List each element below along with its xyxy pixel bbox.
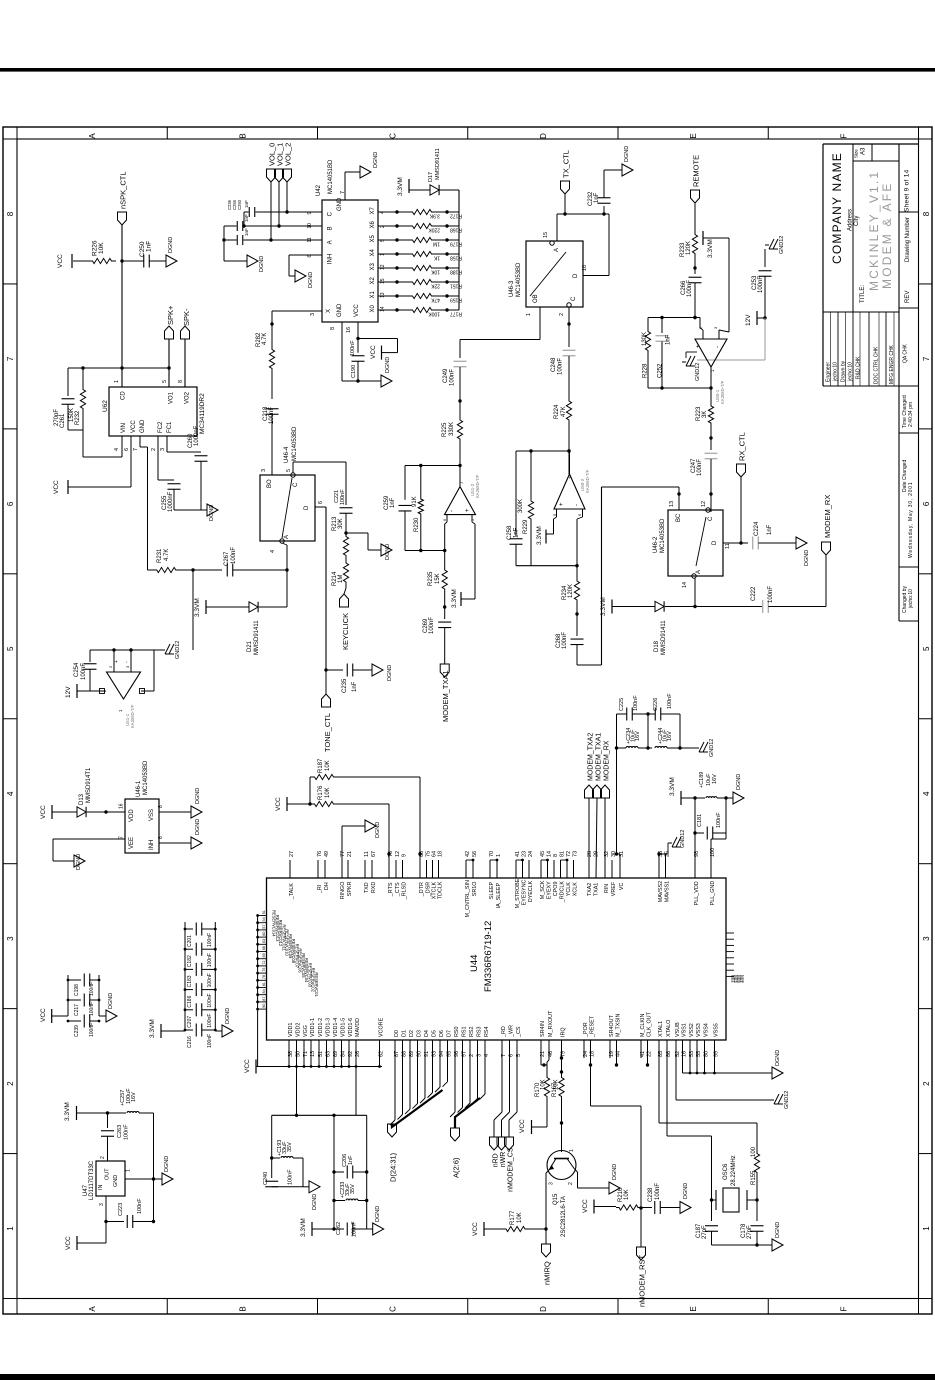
svg-text:FM336R6719-12: FM336R6719-12 xyxy=(483,921,494,992)
svg-text:R224: R224 xyxy=(554,404,560,419)
svg-text:VCC: VCC xyxy=(354,304,360,317)
title block signature columns xyxy=(837,312,839,386)
svg-text:U46-3: U46-3 xyxy=(509,280,515,297)
svg-text:F: F xyxy=(839,133,848,138)
svg-text:10K: 10K xyxy=(430,269,440,275)
svg-text:C224: C224 xyxy=(754,521,760,536)
svg-text:VCC: VCC xyxy=(275,797,282,811)
svg-text:OUT: OUT xyxy=(105,1168,111,1180)
svg-text:1nF: 1nF xyxy=(352,681,358,692)
svg-text:VCC: VCC xyxy=(519,1119,526,1133)
ground DGND at cap bank2 xyxy=(215,1030,222,1032)
capacitor C232 xyxy=(603,206,605,214)
op-amp U50-1 KA358D xyxy=(695,339,727,367)
svg-text:R151: R151 xyxy=(450,283,462,289)
U44 pin 27 _TALK xyxy=(289,860,291,878)
svg-text:MODEM_TXA1: MODEM_TXA1 xyxy=(596,733,603,781)
ground DGND at Q15 xyxy=(609,1182,620,1194)
power VCC at U44 VDD rail xyxy=(255,1060,257,1074)
svg-text:INH: INH xyxy=(149,840,155,850)
resistor R216 xyxy=(616,1205,641,1210)
resistor R232 xyxy=(80,368,85,430)
svg-text:45: 45 xyxy=(540,851,546,857)
title block drawing number cell xyxy=(899,307,919,309)
svg-text:120K: 120K xyxy=(686,241,692,255)
capacitor C247 xyxy=(705,452,718,454)
wire pin2 OC to C248 xyxy=(568,307,570,324)
svg-text:+C189: +C189 xyxy=(699,772,705,788)
crystal OSC6 28.224MHz xyxy=(715,1190,717,1210)
wire C261/R232 bottom rail to VIN xyxy=(68,429,83,431)
resistor R155 xyxy=(756,1123,758,1150)
ground GND12 at cap rails xyxy=(695,747,699,749)
power VCC at U62 xyxy=(67,480,69,494)
svg-text:28: 28 xyxy=(587,851,593,857)
resistor R282 xyxy=(269,346,274,372)
svg-text:U46-4: U46-4 xyxy=(284,446,290,463)
svg-text:_CS: _CS xyxy=(516,1026,522,1038)
svg-text:1nF: 1nF xyxy=(146,241,153,252)
svg-text:F: F xyxy=(839,1306,848,1311)
svg-text:300K: 300K xyxy=(518,499,524,513)
U44 pin 76 _RI xyxy=(317,860,319,878)
svg-text:GND: GND xyxy=(140,419,146,433)
ground GND12 at MAVSS xyxy=(658,854,660,878)
svg-text:R177: R177 xyxy=(450,311,462,317)
svg-text:D21: D21 xyxy=(247,640,253,652)
svg-text:KA358D-T/F: KA358D-T/F xyxy=(475,474,480,498)
svg-text:C240: C240 xyxy=(263,1172,269,1185)
svg-text:_CTS: _CTS xyxy=(395,882,401,897)
svg-text:Q15: Q15 xyxy=(553,1193,559,1205)
svg-text:M_RXOUT: M_RXOUT xyxy=(548,1010,554,1037)
svg-text:X7: X7 xyxy=(370,206,376,214)
capacitor C263 xyxy=(107,1113,109,1128)
U44 pin 18 TDCLK xyxy=(438,860,440,878)
svg-text:2SC2812L6-TA: 2SC2812L6-TA xyxy=(561,1196,567,1237)
svg-text:3.3VM: 3.3VM xyxy=(64,1102,71,1121)
ground GND12 at U50-1 xyxy=(686,351,697,353)
port SPK- xyxy=(181,326,190,339)
power 3.3VM near R233 xyxy=(702,231,704,245)
ground DGND at U46-1 VEE xyxy=(74,855,85,867)
svg-text:49: 49 xyxy=(324,851,330,857)
resistor R226 xyxy=(73,260,88,262)
svg-text:3.3VM: 3.3VM xyxy=(397,177,404,196)
U50-2 input stubs xyxy=(556,509,558,517)
svg-text:1: 1 xyxy=(114,380,120,383)
capacitor C206 xyxy=(334,1171,344,1173)
svg-text:RINGO: RINGO xyxy=(340,882,346,900)
svg-text:1nF: 1nF xyxy=(594,192,600,203)
svg-text:2:40:34 pm: 2:40:34 pm xyxy=(908,402,914,427)
svg-text:1nF: 1nF xyxy=(666,334,672,345)
capacitor C248 xyxy=(563,349,576,351)
svg-text:23: 23 xyxy=(521,851,527,857)
capacitor C222 xyxy=(695,606,762,608)
U44 pin 24 DYECLK xyxy=(528,860,530,878)
svg-text:jecho:10: jecho:10 xyxy=(908,589,914,609)
svg-text:3.3VM: 3.3VM xyxy=(451,589,458,608)
resistor R170 xyxy=(544,1074,549,1100)
svg-text:VSS2: VSS2 xyxy=(689,1023,695,1037)
resistor R234 xyxy=(576,566,578,579)
svg-text:_RLSD: _RLSD xyxy=(401,882,407,900)
svg-text:100nF: 100nF xyxy=(352,1221,358,1237)
svg-text:PLL_GND: PLL_GND xyxy=(710,881,716,906)
svg-text:100nF: 100nF xyxy=(124,1124,130,1140)
svg-text:1nF: 1nF xyxy=(348,1155,354,1165)
svg-text:X3: X3 xyxy=(370,262,376,270)
svg-text:4.7K: 4.7K xyxy=(164,549,170,561)
resistor R188 10K on X3 xyxy=(378,267,397,269)
svg-text:C267: C267 xyxy=(224,551,230,566)
ground DGND at U47 xyxy=(162,1173,173,1185)
U44 pin 41 M_STROBE xyxy=(515,860,517,878)
svg-text:GND12: GND12 xyxy=(175,641,181,659)
power VCC at U47 xyxy=(76,1236,78,1250)
capacitor C259 xyxy=(399,504,412,506)
svg-text:C261: C261 xyxy=(60,413,66,428)
svg-text:18: 18 xyxy=(437,851,443,857)
resistor R213 xyxy=(343,535,348,557)
svg-text:C: C xyxy=(328,211,334,216)
svg-text:VDD1-4: VDD1-4 xyxy=(333,1018,339,1037)
svg-text:C263: C263 xyxy=(117,1125,123,1138)
svg-text:16V: 16V xyxy=(131,1092,137,1102)
svg-text:jecho:10: jecho:10 xyxy=(848,362,854,382)
capacitor C201 xyxy=(185,928,193,930)
wires VOL ports to A B C lines xyxy=(270,182,272,240)
svg-text:X1: X1 xyxy=(370,290,376,298)
port nMIRQ xyxy=(545,1229,547,1244)
svg-text:A: A xyxy=(284,535,290,539)
svg-text:100: 100 xyxy=(751,1146,757,1157)
svg-text:B: B xyxy=(238,1306,247,1311)
svg-text:3.3VM: 3.3VM xyxy=(600,597,607,616)
svg-text:10K: 10K xyxy=(541,1079,547,1090)
svg-text:IA_SLEEP: IA_SLEEP xyxy=(496,883,502,909)
wire Q15 collector to DGND xyxy=(575,1169,578,1172)
svg-text:5: 5 xyxy=(6,646,15,651)
U44 left edge RESERV pins xyxy=(258,915,267,917)
capacitor C239 xyxy=(68,1020,81,1022)
ground DGND at U46-1 pin8 xyxy=(191,806,202,818)
svg-text:RIN: RIN xyxy=(604,884,610,893)
svg-text:15: 15 xyxy=(543,232,549,238)
svg-text:MODEM_TXA1: MODEM_TXA1 xyxy=(441,670,450,722)
svg-text:TXA2: TXA2 xyxy=(587,883,593,896)
power 3.3VM at C262 xyxy=(311,1222,313,1236)
ground DGND at C255/C260 xyxy=(174,509,201,511)
svg-text:42: 42 xyxy=(465,851,471,857)
svg-text:-: - xyxy=(450,510,456,512)
svg-text:100nF: 100nF xyxy=(350,340,356,356)
svg-text:X6: X6 xyxy=(370,220,376,228)
wires SR4IN M_RXOUT xyxy=(540,1040,542,1065)
svg-text:27: 27 xyxy=(289,851,295,857)
svg-text:28.224MHz: 28.224MHz xyxy=(731,1155,737,1186)
ground DGND at C240 xyxy=(272,1186,303,1188)
svg-text:16V: 16V xyxy=(635,731,641,741)
svg-text:IN: IN xyxy=(98,1184,104,1190)
svg-text:C181: C181 xyxy=(697,814,703,827)
svg-text:U62: U62 xyxy=(102,400,109,412)
svg-text:KEYCLICK: KEYCLICK xyxy=(341,613,350,650)
ground DGND at C189 xyxy=(726,797,733,799)
svg-text:X: X xyxy=(326,309,332,313)
svg-text:10: 10 xyxy=(582,265,588,271)
rail1-rail2 connections xyxy=(647,714,649,748)
svg-text:75: 75 xyxy=(262,968,266,972)
svg-text:8: 8 xyxy=(553,854,559,857)
svg-text:1M: 1M xyxy=(433,241,440,247)
svg-text:SPK+: SPK+ xyxy=(166,305,175,325)
svg-text:C226: C226 xyxy=(653,698,659,711)
svg-text:C182: C182 xyxy=(187,955,193,967)
svg-text:R188: R188 xyxy=(450,269,462,275)
svg-text:DGND: DGND xyxy=(385,544,391,560)
ground DGND at C235 xyxy=(372,664,383,676)
svg-text:_RESET: _RESET xyxy=(589,1015,595,1038)
svg-text:_RI: _RI xyxy=(317,885,323,894)
svg-text:Sheet 9 of 14: Sheet 9 of 14 xyxy=(904,169,911,212)
svg-text:D: D xyxy=(539,1306,548,1312)
svg-text:nWR: nWR xyxy=(500,1152,507,1168)
power VCC at R176 xyxy=(286,797,288,811)
svg-text:VCC: VCC xyxy=(57,254,64,268)
wire nSPK_CTL to U62 CD xyxy=(121,225,123,387)
svg-text:130K: 130K xyxy=(642,332,648,346)
power 12V at U51-1 xyxy=(76,684,78,698)
wires TXA ports to pins xyxy=(588,798,590,878)
svg-text:C238: C238 xyxy=(648,1187,654,1202)
svg-text:67: 67 xyxy=(371,851,377,857)
capacitor C217 xyxy=(68,999,81,1001)
ground DGND at C250 xyxy=(166,255,177,267)
feedback network C259 R230 xyxy=(405,550,445,552)
svg-text:MFG ENGR CHK: MFG ENGR CHK xyxy=(889,344,895,384)
svg-text:MMSD914T1: MMSD914T1 xyxy=(86,767,92,803)
svg-text:GND12: GND12 xyxy=(779,236,785,254)
svg-text:Size: Size xyxy=(854,149,859,158)
cap bank C239 C217 C198 xyxy=(67,975,69,1016)
svg-text:VSS1: VSS1 xyxy=(681,1023,687,1037)
title block size box xyxy=(853,144,872,161)
svg-text:12: 12 xyxy=(395,851,401,857)
svg-text:B: B xyxy=(238,133,247,138)
port A(2:6) xyxy=(451,1128,460,1141)
svg-text:12: 12 xyxy=(701,501,707,507)
svg-text:VCC: VCC xyxy=(582,1199,589,1213)
svg-text:BC: BC xyxy=(676,513,682,522)
svg-text:MCKINLEY_V1.1: MCKINLEY_V1.1 xyxy=(867,170,881,291)
svg-text:10K: 10K xyxy=(98,242,105,254)
svg-text:3: 3 xyxy=(549,1182,555,1185)
svg-text:3: 3 xyxy=(6,936,15,941)
ground DGND at C238 xyxy=(680,1202,691,1214)
svg-text:D: D xyxy=(712,540,718,545)
svg-text:47K: 47K xyxy=(430,297,440,303)
ground DGND at cap bank xyxy=(99,1015,106,1017)
wires SR4OUT M_TXSIN xyxy=(609,1040,611,1058)
op-amp U51-1 xyxy=(107,672,141,699)
svg-text:C: C xyxy=(389,133,398,139)
svg-text:R159: R159 xyxy=(450,297,462,303)
svg-text:C225: C225 xyxy=(619,698,625,711)
svg-text:VSS3: VSS3 xyxy=(696,1023,702,1037)
svg-text:2: 2 xyxy=(922,1081,931,1086)
svg-text:_RTS: _RTS xyxy=(388,882,394,897)
svg-text:R225: R225 xyxy=(442,422,448,437)
svg-text:22K: 22K xyxy=(430,283,440,289)
capacitor C238 xyxy=(641,1207,652,1209)
capacitor C253 and 12V xyxy=(765,244,769,246)
svg-text:D2: D2 xyxy=(409,1030,415,1037)
svg-text:D3: D3 xyxy=(416,1030,422,1037)
wire R231 node to U51-1 rail xyxy=(192,570,194,650)
svg-text:100nF: 100nF xyxy=(558,358,564,375)
svg-text:C258: C258 xyxy=(507,525,513,540)
U44 pin 56 SR1O xyxy=(472,860,474,878)
svg-text:76: 76 xyxy=(317,851,323,857)
capacitor C240 xyxy=(271,1158,273,1178)
svg-text:DGND: DGND xyxy=(168,237,174,253)
svg-text:C201: C201 xyxy=(187,935,193,947)
wire IRQ to R167 xyxy=(561,1040,563,1074)
svg-text:7: 7 xyxy=(133,448,139,451)
svg-text:1M: 1M xyxy=(338,575,344,583)
svg-text:100nF: 100nF xyxy=(207,1014,213,1028)
svg-text:13: 13 xyxy=(380,292,386,298)
svg-text:10K: 10K xyxy=(624,1189,630,1200)
svg-text:DGND: DGND xyxy=(775,1050,781,1066)
svg-text:MMSD91411: MMSD91411 xyxy=(435,148,441,180)
svg-text:C252: C252 xyxy=(658,363,664,378)
wire U46-3 D pin to rail xyxy=(583,275,609,277)
capacitor C268 xyxy=(576,614,578,636)
svg-text:DGND: DGND xyxy=(736,774,742,790)
svg-text:A(2:6): A(2:6) xyxy=(452,1157,461,1178)
svg-text:100nF: 100nF xyxy=(137,1198,143,1214)
svg-text:13: 13 xyxy=(669,501,675,507)
svg-text:X4: X4 xyxy=(370,248,376,256)
svg-text:4: 4 xyxy=(270,550,276,553)
svg-text:VCC: VCC xyxy=(53,480,60,494)
svg-text:2: 2 xyxy=(559,313,565,316)
svg-text:IRQ: IRQ xyxy=(560,1027,566,1037)
svg-text:16: 16 xyxy=(346,327,352,333)
power 3.3VM at cap bank2 xyxy=(160,1024,162,1038)
svg-text:51: 51 xyxy=(262,910,266,914)
capacitor C181 xyxy=(695,832,704,834)
port nSPK_CTL xyxy=(118,212,127,225)
svg-text:VCC: VCC xyxy=(131,420,137,433)
svg-text:3: 3 xyxy=(922,936,931,941)
svg-text:C216: C216 xyxy=(187,1036,193,1048)
svg-text:5: 5 xyxy=(286,469,292,472)
svg-text:VCC: VCC xyxy=(472,1222,479,1236)
svg-text:14: 14 xyxy=(682,582,688,588)
svg-text:M_CNTRL_SIN: M_CNTRL_SIN xyxy=(465,880,471,918)
svg-text:TONE_CTL: TONE_CTL xyxy=(323,713,332,752)
svg-text:3: 3 xyxy=(310,313,316,316)
svg-text:C: C xyxy=(293,482,299,487)
svg-text:DGND: DGND xyxy=(683,1183,689,1199)
ground DGND at C262 xyxy=(367,1228,373,1230)
svg-text:1000nF: 1000nF xyxy=(194,425,200,446)
svg-text:27pF: 27pF xyxy=(747,1225,753,1239)
U44 pin 42 M_CNTRL_SIN xyxy=(465,860,467,878)
svg-text:GND: GND xyxy=(337,303,343,317)
wire VC pin to cap rail xyxy=(619,854,621,878)
svg-text:3.3VM: 3.3VM xyxy=(707,239,714,258)
svg-text:VC: VC xyxy=(619,883,625,891)
svg-text:100nF: 100nF xyxy=(716,812,722,828)
svg-text:72: 72 xyxy=(566,851,572,857)
wire pin4 A down to C267 node xyxy=(282,543,287,545)
svg-text:C239: C239 xyxy=(74,1025,80,1037)
capacitor C216 xyxy=(185,1029,193,1031)
svg-text:VDD1-2: VDD1-2 xyxy=(318,1018,324,1037)
U44 pin 1 IA_SLEEP xyxy=(496,860,498,878)
svg-text:EYEXY: EYEXY xyxy=(546,881,552,899)
capacitor C186 xyxy=(185,989,193,991)
port KEYCLICK xyxy=(344,588,346,594)
svg-text:TITLE:: TITLE: xyxy=(860,285,866,303)
svg-text:DGND: DGND xyxy=(385,357,391,373)
ground DGND at U46-1 pin6 xyxy=(191,837,202,849)
svg-text:12: 12 xyxy=(380,264,386,270)
svg-text:66: 66 xyxy=(262,946,266,950)
svg-text:DYECLK: DYECLK xyxy=(528,880,534,902)
wire RTS DTR to pins xyxy=(388,854,390,878)
svg-text:41: 41 xyxy=(515,851,521,857)
svg-text:A: A xyxy=(88,1306,97,1312)
svg-text:5: 5 xyxy=(162,380,168,383)
svg-text:X5: X5 xyxy=(370,234,376,242)
svg-text:+: + xyxy=(559,502,565,506)
svg-text:A: A xyxy=(554,248,560,252)
svg-text:1: 1 xyxy=(496,854,502,857)
svg-text:U44: U44 xyxy=(469,955,480,972)
svg-text:DH: DH xyxy=(324,882,330,890)
svg-text:DGND: DGND xyxy=(195,819,201,835)
wire to DGND at C221/R213 xyxy=(346,532,368,534)
svg-text:DGND: DGND xyxy=(76,854,82,870)
svg-text:D17: D17 xyxy=(428,172,434,182)
power VCC at R177 xyxy=(483,1222,485,1236)
capacitor C235 xyxy=(326,669,343,671)
svg-text:8: 8 xyxy=(178,380,184,383)
VDD stubs to rail xyxy=(288,1040,290,1067)
svg-text:R235: R235 xyxy=(428,571,434,586)
ground DGND at VOL caps xyxy=(247,255,258,267)
wire U50-2 output up xyxy=(569,451,571,474)
svg-text:R229: R229 xyxy=(523,519,529,534)
svg-text:R158: R158 xyxy=(450,255,462,261)
U44 pin 14 EYEXY xyxy=(547,860,549,878)
svg-text:3K: 3K xyxy=(702,411,708,418)
IC U44 FM336R6719-12 box xyxy=(267,878,727,1040)
U44 pin 23 EYESYNC xyxy=(522,860,524,878)
power 3.3VM at D18 xyxy=(611,600,613,614)
svg-text:_RD: _RD xyxy=(501,1026,507,1038)
svg-text:RESERVC01: RESERVC01 xyxy=(314,972,319,997)
svg-text:1nF: 1nF xyxy=(390,497,396,508)
svg-text:100nF: 100nF xyxy=(231,547,237,564)
resistor R177 100K on X0 xyxy=(378,309,397,311)
